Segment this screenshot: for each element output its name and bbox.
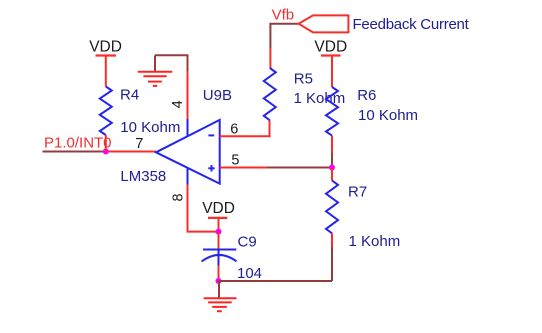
svg-text:VDD: VDD <box>202 200 235 217</box>
ground symbol 1 <box>138 55 173 86</box>
svg-text:R5: R5 <box>294 71 313 88</box>
svg-text:U9B: U9B <box>203 87 232 104</box>
node Vfb wire <box>270 24 298 48</box>
wire pin 5 red segment <box>220 167 267 169</box>
svg-text:R6: R6 <box>357 87 376 104</box>
wire bottom net <box>219 280 333 282</box>
wire pin 8 red segment <box>188 185 219 232</box>
svg-text:Vfb: Vfb <box>272 7 295 24</box>
node junction dot at R4/output <box>103 149 109 155</box>
node junction dot pin5/R6/R7 <box>329 165 335 171</box>
power VDD symbol 2 <box>314 39 347 56</box>
node junction dot VDD3/pin8 <box>216 229 222 235</box>
wire node to C9 top <box>218 232 220 250</box>
wire R6 to node dark segment <box>331 153 333 168</box>
resistor R4 <box>100 87 112 136</box>
svg-text:C9: C9 <box>238 233 257 250</box>
svg-text:10 Kohm: 10 Kohm <box>120 119 180 136</box>
ground symbol 2 <box>204 281 237 311</box>
svg-text:R7: R7 <box>348 184 367 201</box>
svg-text:1 Kohm: 1 Kohm <box>294 90 346 107</box>
svg-text:8: 8 <box>171 193 187 201</box>
svg-text:R4: R4 <box>120 87 139 104</box>
wire VDD2 to R6 <box>331 56 333 88</box>
svg-text:VDD: VDD <box>89 39 122 56</box>
svg-text:P1.0/INT0: P1.0/INT0 <box>44 135 112 152</box>
wire C9 bottom <box>218 266 220 281</box>
wire Vfb to R5 <box>269 48 271 68</box>
svg-text:7: 7 <box>135 136 143 152</box>
svg-text:10 Kohm: 10 Kohm <box>358 107 418 124</box>
wire VDD1 to R4 <box>105 56 107 87</box>
svg-text:5: 5 <box>231 153 239 169</box>
wire R7 bottom red segment <box>331 233 333 247</box>
op-amp U9B <box>156 119 220 185</box>
power VDD symbol 1 <box>89 39 122 56</box>
power VDD symbol 3 <box>202 200 235 232</box>
svg-text:1 Kohm: 1 Kohm <box>349 233 401 250</box>
svg-text:LM358: LM358 <box>120 168 166 185</box>
wire node to R7 <box>331 168 333 181</box>
node junction dot C9/ground <box>216 278 222 284</box>
off-page connector Feedback Current <box>299 15 349 32</box>
wire pin 5 net dark segment <box>267 167 332 169</box>
wire op-amp output pin 7 (red segment) <box>106 151 156 153</box>
svg-text:VDD: VDD <box>314 39 347 56</box>
svg-text:Feedback Current: Feedback Current <box>353 16 470 33</box>
wire R6 bottom red segment <box>331 136 333 153</box>
wire ground1 to pin 4 <box>155 55 188 71</box>
wire pin 6 <box>220 120 270 136</box>
resistor R5 <box>264 68 276 120</box>
capacitor C9 <box>202 250 237 266</box>
wire pin 4 red segment <box>187 71 189 119</box>
wire P1.0/INT0 net (dark segment) <box>43 151 106 153</box>
svg-text:104: 104 <box>237 265 262 282</box>
svg-text:4: 4 <box>170 100 186 108</box>
resistor R6 <box>326 87 338 136</box>
svg-text:6: 6 <box>230 122 238 138</box>
resistor R7 <box>326 181 338 234</box>
wire R7 to bottom net dark segment <box>331 247 333 281</box>
wire R4 bottom lead <box>105 135 107 152</box>
